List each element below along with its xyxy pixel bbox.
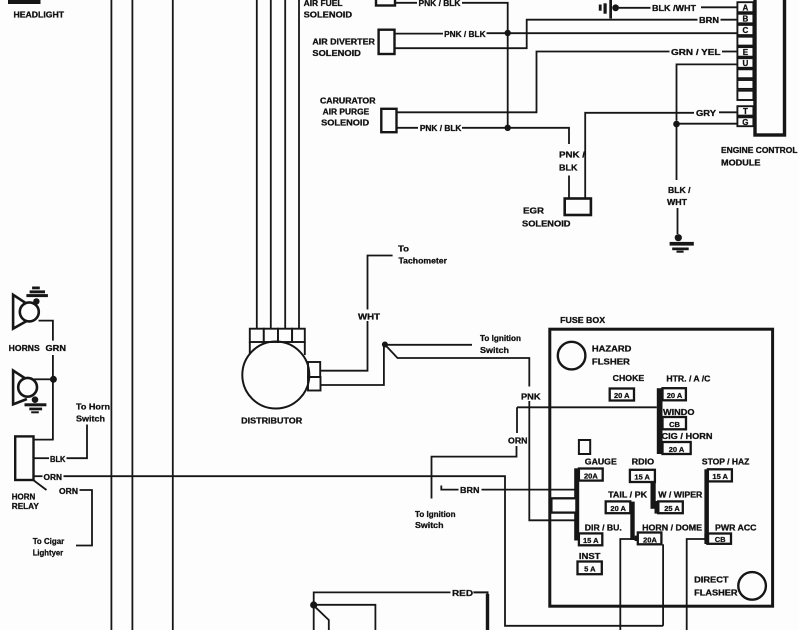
wire (HORN/DOME right down): [662, 544, 664, 626]
wire GRY into pin T: [719, 111, 737, 113]
node ignition junction: [382, 342, 388, 348]
svg-text:DIRECT: DIRECT: [694, 576, 729, 585]
wire (long vertical 2): [131, 0, 133, 630]
svg-text:20 A: 20 A: [610, 504, 626, 513]
svg-text:WINDO: WINDO: [663, 408, 695, 417]
svg-text:To Ignition: To Ignition: [415, 510, 456, 519]
fuse HORN/DOME 20A: [638, 533, 662, 545]
svg-text:CB: CB: [715, 535, 726, 544]
relay K1 HORN RELAY: [15, 436, 33, 480]
svg-text:CIG / HORN: CIG / HORN: [662, 432, 713, 441]
fuse PWR CB: [707, 534, 731, 544]
wire RED to battery drop: [473, 592, 487, 630]
wire PNK/BLK carb bottom: [397, 127, 419, 129]
fuse TAIL 20A: [606, 501, 631, 513]
wire (horn2 to junction): [34, 378, 50, 380]
wire WHT (upper terminal): [320, 321, 367, 371]
bus bar (RDIO to WIPER): [651, 470, 656, 509]
wire (diverter to pin C): [487, 32, 738, 34]
svg-text:Lightyer: Lightyer: [33, 548, 64, 557]
svg-text:20 A: 20 A: [669, 445, 685, 454]
wire (diagonal from junction): [316, 607, 329, 630]
wire U pin: [677, 64, 738, 120]
svg-text:EGR: EGR: [523, 207, 544, 216]
wire BLK/WHT (to pin A): [619, 7, 651, 9]
svg-text:RDIO: RDIO: [632, 457, 655, 466]
ground (above horn 1): [26, 287, 48, 305]
svg-text:20 A: 20 A: [667, 391, 683, 400]
svg-text:ORN: ORN: [59, 487, 78, 496]
svg-text:PNK /: PNK /: [559, 150, 586, 159]
svg-text:15 A: 15 A: [583, 536, 599, 545]
solenoid L2 AIR DIVERTER: [379, 30, 395, 54]
node PNK/BLK junction lower: [505, 125, 511, 131]
wire ORN 2 diagonal from relay: [33, 480, 47, 491]
wire distributor plug 4: [298, 0, 300, 329]
spare fuse slot: [579, 440, 590, 454]
svg-text:20A: 20A: [584, 471, 598, 480]
fuse WIPER 25A: [658, 501, 683, 513]
bus bar (GAUGE to DIR): [574, 468, 579, 540]
distributor cap sides: [249, 342, 251, 355]
svg-text:SOLENOID: SOLENOID: [304, 11, 353, 20]
svg-text:E: E: [743, 48, 749, 57]
svg-text:PNK / BLK: PNK / BLK: [444, 30, 486, 39]
wire (ORN into HTR bar): [517, 406, 657, 408]
wire (to ground symbol): [677, 208, 679, 234]
fuse STOP 15A: [708, 469, 732, 481]
capacitor C1 (noise suppressor): [599, 0, 619, 19]
svg-text:CARURATOR: CARURATOR: [320, 96, 376, 105]
wire GRN/YEL (carb top to pin E): [397, 52, 670, 113]
svg-text:A: A: [743, 3, 749, 12]
node PNK/BLK junction top: [505, 30, 511, 36]
svg-text:RED: RED: [452, 589, 473, 598]
svg-text:BLK /WHT: BLK /WHT: [652, 4, 696, 13]
wire ORN from relay: [34, 475, 43, 477]
wire GRN/YEL into pin E: [722, 51, 737, 53]
svg-text:HAZARD: HAZARD: [592, 345, 632, 354]
svg-text:5 A: 5 A: [584, 565, 596, 574]
svg-text:PNK / BLK: PNK / BLK: [420, 124, 462, 133]
wire (PWR ACC down): [687, 539, 708, 630]
svg-text:GRN / YEL: GRN / YEL: [671, 48, 721, 57]
svg-text:INST: INST: [579, 552, 601, 561]
wire BRN hook: [441, 486, 458, 490]
svg-text:CHOKE: CHOKE: [613, 374, 645, 383]
svg-text:HTR. / A /C: HTR. / A /C: [666, 374, 710, 383]
wire G pin: [677, 123, 738, 125]
svg-text:RELAY: RELAY: [12, 502, 40, 511]
wire (GRN into relay): [34, 439, 54, 441]
fuse CIG 20A: [663, 442, 691, 454]
fuse DIR 15A: [579, 533, 602, 545]
svg-text:U: U: [743, 59, 749, 68]
svg-text:To Cigar: To Cigar: [33, 537, 64, 546]
svg-text:To Horn: To Horn: [76, 402, 110, 411]
svg-text:BLK: BLK: [50, 455, 66, 464]
svg-text:BLK /: BLK /: [668, 186, 691, 195]
wire pointer to ignition switch label: [388, 344, 473, 346]
bus bar (STOP to PWR): [704, 469, 709, 541]
node battery junction: [310, 601, 317, 608]
wire BLK to horn switch: [34, 457, 50, 459]
svg-text:Switch: Switch: [480, 346, 509, 355]
svg-text:SOLENOID: SOLENOID: [321, 118, 369, 127]
headlight lamp: [8, 0, 41, 4]
bus bar (HTR to CIG): [657, 388, 663, 454]
ground (below horn 2): [25, 396, 47, 413]
wire ORN to ignition switch: [432, 446, 517, 499]
fuse GAUGE 20A: [579, 469, 603, 481]
wire BRN into GAUGE bar: [482, 489, 577, 491]
svg-text:WHT: WHT: [667, 198, 687, 207]
wire ORN long (to fuse area): [64, 476, 664, 626]
wire distributor plug 1: [256, 0, 258, 329]
direct flasher circle: [738, 572, 766, 600]
wire PNK/BLK air fuel: [395, 2, 417, 4]
svg-text:HORN: HORN: [12, 493, 36, 502]
wire (long vertical 3): [172, 0, 174, 630]
fuse CHOKE 20A: [610, 389, 634, 401]
svg-text:B: B: [743, 15, 749, 24]
fuse INST 5A: [578, 562, 602, 575]
wire (horn1 to GRN vertical): [39, 321, 53, 341]
node horn junction: [50, 376, 57, 383]
svg-text:PWR ACC: PWR ACC: [715, 523, 757, 532]
svg-text:GRN: GRN: [46, 344, 67, 353]
svg-text:GAUGE: GAUGE: [585, 457, 618, 466]
svg-text:PNK: PNK: [521, 392, 541, 401]
wire PNK/BLK diverter top: [395, 33, 444, 35]
ground (ECM BLK/WHT): [670, 234, 694, 253]
svg-text:HORNS: HORNS: [9, 344, 41, 353]
svg-text:20 A: 20 A: [614, 391, 630, 400]
fuse WINDO CB: [663, 417, 687, 429]
svg-text:FLSHER: FLSHER: [592, 358, 630, 367]
wire (junction box top): [316, 605, 375, 630]
svg-text:STOP / HAZ: STOP / HAZ: [702, 458, 750, 467]
connector on fuse box left edge: [551, 498, 576, 512]
fuse RDIO 15A: [630, 470, 655, 482]
svg-text:SOLENOID: SOLENOID: [312, 49, 361, 58]
distributor cap towers: [250, 329, 305, 342]
wire (HORN/DOME left down): [620, 539, 638, 630]
distributor side terminals: [308, 362, 320, 377]
svg-text:MODULE: MODULE: [721, 159, 761, 168]
svg-text:BRN: BRN: [699, 16, 719, 25]
solenoid L4 EGR: [565, 199, 591, 216]
svg-text:SOLENOID: SOLENOID: [522, 219, 571, 228]
svg-text:AIR FUEL: AIR FUEL: [304, 0, 343, 8]
fuse box outline: [550, 329, 773, 606]
wire distributor plug 3: [284, 0, 286, 329]
svg-text:C: C: [743, 26, 749, 35]
node U/G junction: [673, 121, 680, 128]
svg-text:W / WIPER: W / WIPER: [658, 491, 702, 500]
wire RED: [314, 592, 451, 630]
wire (long vertical 1): [110, 0, 112, 630]
svg-text:HORN / DOME: HORN / DOME: [642, 524, 703, 533]
svg-text:FLASHER: FLASHER: [694, 588, 738, 597]
wire PNK diagonal and horizontal: [386, 346, 529, 387]
distributor body: [242, 342, 309, 409]
bus bar (TAIL to HORN/DOME): [630, 502, 634, 540]
svg-text:Switch: Switch: [415, 521, 444, 530]
svg-text:Tachometer: Tachometer: [399, 256, 448, 265]
solenoid L3 CARB AIR PURGE: [381, 109, 396, 132]
wire (BLK continue to switch): [67, 425, 88, 459]
wire PNK vertical continue: [529, 401, 576, 520]
svg-text:To: To: [398, 244, 409, 253]
wire WHT to tachometer: [368, 256, 393, 310]
svg-text:BLK: BLK: [559, 163, 578, 172]
connector ECM pin block: [737, 2, 753, 126]
wire GRY (EGR right to pin T): [585, 113, 694, 199]
wire (carb to EGR drop): [462, 128, 569, 144]
svg-text:GRY: GRY: [696, 109, 717, 118]
svg-text:G: G: [742, 118, 748, 127]
horn H2: [13, 371, 37, 405]
pin letters: [742, 3, 748, 127]
svg-text:HEADLIGHT: HEADLIGHT: [14, 11, 65, 20]
svg-text:AIR PURGE: AIR PURGE: [323, 108, 370, 117]
svg-text:AIR DIVERTER: AIR DIVERTER: [312, 37, 375, 46]
svg-text:ENGINE CONTROL: ENGINE CONTROL: [721, 146, 798, 155]
svg-text:CB: CB: [669, 420, 680, 429]
svg-text:PNK / BLK: PNK / BLK: [419, 0, 461, 8]
wire vertical (junction to junction): [507, 33, 509, 128]
svg-text:ORN: ORN: [508, 437, 528, 446]
wire RED drop thick: [486, 594, 489, 630]
wire (lower terminal up to junction): [320, 345, 384, 386]
wire BLK/WHT into pin A: [701, 6, 737, 8]
svg-text:T: T: [743, 107, 748, 116]
wire BLK/WHT to ground: [676, 126, 678, 180]
wire GRN vertical: [52, 355, 54, 440]
wire ORN to cigar lighter: [76, 490, 92, 546]
wire distributor plug 2: [270, 0, 272, 329]
svg-text:DISTRIBUTOR: DISTRIBUTOR: [241, 416, 302, 425]
wire BRN (diverter bottom to pin B): [395, 20, 698, 49]
svg-text:15 A: 15 A: [634, 473, 650, 482]
solenoid L1 AIR FUEL (cut off): [376, 0, 395, 6]
svg-text:20A: 20A: [643, 535, 657, 544]
svg-text:DIR / BU.: DIR / BU.: [585, 524, 622, 533]
hazard flasher circle: [558, 342, 586, 370]
wire (drop into EGR): [568, 176, 570, 199]
fuse HTR 20A: [663, 388, 686, 400]
svg-text:Switch: Switch: [76, 414, 105, 423]
svg-text:WHT: WHT: [358, 312, 380, 321]
wire ORN branch (HTR feed): [516, 407, 518, 433]
svg-text:To Ignition: To Ignition: [480, 334, 521, 343]
horn H1: [13, 295, 39, 329]
svg-text:TAIL / PK: TAIL / PK: [608, 490, 647, 499]
wire (air fuel to vertical): [462, 3, 508, 33]
svg-text:15 A: 15 A: [712, 472, 728, 481]
svg-text:ORN: ORN: [44, 473, 63, 482]
svg-text:25 A: 25 A: [664, 504, 680, 513]
ecm U1 body: [755, 0, 785, 135]
wire BRN into pin B: [721, 19, 738, 21]
svg-text:BRN: BRN: [460, 486, 480, 495]
svg-text:FUSE BOX: FUSE BOX: [560, 316, 606, 325]
